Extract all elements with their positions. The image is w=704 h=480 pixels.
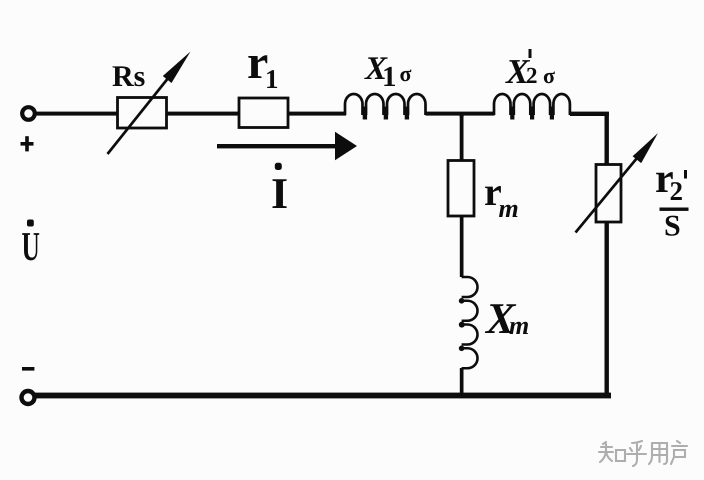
resistor rm box xyxy=(448,161,474,217)
wire: middle vertical junction to rm xyxy=(460,113,464,161)
wire: X2sigma to right corner xyxy=(570,112,609,116)
svg-text:1: 1 xyxy=(382,61,397,93)
svg-text:Rs: Rs xyxy=(112,60,145,93)
watermark char yong xyxy=(649,443,667,464)
node junction T xyxy=(460,113,464,117)
svg-text:U: U xyxy=(22,223,40,269)
watermark char hu2 xyxy=(671,441,687,464)
svg-text:m: m xyxy=(509,311,529,340)
terminal minus (bottom-left circle) xyxy=(22,391,35,404)
label r2 prime over S xyxy=(655,156,689,243)
svg-text:σ: σ xyxy=(543,63,555,88)
watermark zhihu user xyxy=(599,441,687,466)
label I-dot xyxy=(271,163,288,218)
watermark char hu xyxy=(627,441,646,466)
label X1sigma xyxy=(364,51,412,93)
svg-text:1: 1 xyxy=(265,64,279,94)
inductor Xm (vertical) xyxy=(462,277,478,368)
wire bottom xyxy=(35,393,611,399)
inductor X2sigma xyxy=(494,94,570,115)
minus sign xyxy=(22,367,34,371)
inductor X1sigma xyxy=(345,94,426,115)
svg-text:σ: σ xyxy=(400,61,412,86)
svg-text:2: 2 xyxy=(670,176,684,206)
variable arrow through r2 xyxy=(576,133,659,233)
label X2sigma prime xyxy=(505,49,555,91)
wire: Rs to r1 xyxy=(167,112,239,116)
watermark char zhi xyxy=(599,442,613,462)
plus sign xyxy=(21,136,34,151)
current arrow I xyxy=(217,132,357,160)
resistor r1 box xyxy=(239,98,288,128)
wire: Xm to bottom xyxy=(460,368,464,396)
wire: r1 to X1sigma coil xyxy=(288,112,346,116)
wire: r2 box to bottom xyxy=(605,222,609,398)
label rm xyxy=(484,169,519,223)
svg-text:m: m xyxy=(499,194,519,223)
terminal plus (top-left circle) xyxy=(22,107,35,120)
label Xm xyxy=(484,294,529,343)
wire: X1sigma to X2sigma through junction xyxy=(426,112,495,116)
svg-text:2: 2 xyxy=(526,63,538,88)
label U-dot xyxy=(22,220,40,270)
wire: rm to Xm coil xyxy=(460,216,464,277)
resistor Rs (variable) box xyxy=(118,98,167,129)
resistor r2/S (variable) box xyxy=(596,165,621,223)
wire top: terminal to Rs box xyxy=(35,112,118,116)
wire: right vertical corner to r2 box xyxy=(605,112,609,165)
variable arrow through Rs xyxy=(108,52,191,155)
svg-text:I: I xyxy=(271,169,288,218)
svg-text:S: S xyxy=(664,210,681,243)
